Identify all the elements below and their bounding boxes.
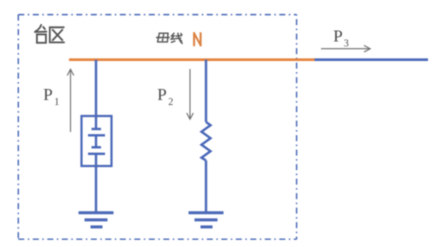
svg-text:P: P [157,85,166,104]
svg-text:P: P [333,27,342,46]
svg-text:P: P [43,85,52,104]
svg-text:3: 3 [344,38,349,49]
svg-text:2: 2 [168,97,173,108]
svg-text:1: 1 [54,97,59,108]
